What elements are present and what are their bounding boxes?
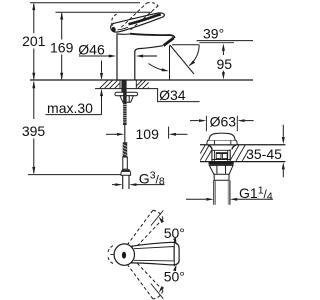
dimension max.30 lower arrow — [100, 89, 103, 96]
thin pull rod — [124, 125, 126, 142]
lever front dark band — [129, 15, 161, 25]
lever back edge — [116, 13, 159, 23]
dimension 109 — [106, 133, 117, 135]
dimension 201 arrow down — [32, 73, 35, 80]
dimension 35-45 lower — [282, 162, 285, 169]
braided hose — [123, 142, 128, 157]
extension line 169 (to lever top) — [56, 11, 153, 13]
drain locknut — [209, 165, 233, 174]
dome right corner shadow — [232, 145, 236, 149]
countertop top line — [30, 79, 253, 81]
dimension 169 line — [61, 13, 63, 79]
drain countertop bottom line — [200, 161, 285, 163]
dimension 201 arrow up — [32, 3, 35, 10]
svg-text:max.30: max.30 — [47, 100, 93, 116]
dimension 395 arrow up — [32, 81, 35, 88]
drain countertop top line — [200, 144, 285, 146]
dimension 395 line — [33, 82, 35, 173]
body top line — [117, 33, 134, 36]
hose nut dark band — [122, 170, 130, 172]
threaded rod thread lines — [123, 104, 127, 122]
threaded rod (continuous through washer and nut) — [123, 92, 127, 125]
svg-text:Ø63: Ø63 — [210, 113, 237, 129]
dashed raised lever tip cap — [147, 3, 159, 6]
angle arc arrowhead — [189, 60, 195, 66]
drain body inner verticals — [214, 150, 227, 161]
dimension O63 — [190, 120, 199, 122]
top view: lever body — [131, 242, 180, 265]
dimension 169 arrow down — [60, 73, 63, 80]
extension line hose end (395 bottom) — [28, 174, 121, 176]
hose sleeve — [123, 157, 128, 169]
seal washer dark bar — [208, 162, 233, 165]
faucet body right edge — [134, 52, 136, 81]
connection pipe G3/8 — [123, 175, 129, 189]
top view: knob dashed arcs — [108, 246, 113, 253]
drain dome arc — [209, 133, 235, 140]
vertical reference from spout outlet — [169, 46, 171, 80]
39 deg underline — [197, 40, 254, 42]
dimension O46 leader left — [79, 55, 109, 57]
braid texture — [123, 144, 128, 155]
dome left corner shadow — [208, 145, 212, 149]
drain body top line — [212, 149, 230, 151]
extension line top (201 to raised lever top) — [30, 2, 140, 4]
svg-text:50°: 50° — [164, 225, 185, 241]
water stream line — [170, 45, 194, 74]
counter hatch left of shank — [100, 80, 120, 88]
slots dark top — [216, 152, 227, 154]
extension tick at spout reach — [168, 127, 170, 139]
top view: arrowhead at lever tip upper — [173, 238, 176, 245]
dimension G3/8 arrows — [112, 184, 115, 186]
drain body edges — [212, 149, 230, 161]
spout underside — [139, 46, 163, 49]
top view: dashed lever rotated up 50 — [125, 209, 164, 252]
svg-text:50°: 50° — [164, 268, 185, 284]
small arc arrowhead — [162, 68, 169, 71]
drain counter hatch left — [200, 145, 212, 161]
countertop bottom line with step to O34 label — [95, 89, 200, 102]
svg-text:109: 109 — [136, 126, 160, 142]
drain body slots — [216, 153, 221, 159]
svg-text:Ø46: Ø46 — [78, 42, 105, 58]
aerator dark band — [164, 38, 174, 46]
top view: arrowhead at lever tip lower — [173, 264, 176, 271]
spout top edge — [130, 34, 175, 38]
lever bottom edge — [118, 18, 161, 32]
top view: lever inner outline — [134, 247, 174, 261]
lever inner line near knob — [118, 27, 129, 30]
svg-text:395: 395 — [22, 123, 46, 139]
lever knob dark spot — [111, 26, 116, 32]
top view: upper arrowhead at extension — [159, 217, 164, 224]
lever tip end cap — [159, 13, 164, 18]
top view: tip centerline — [173, 241, 175, 266]
drain counter hatch right — [231, 145, 248, 161]
svg-text:35-45: 35-45 — [246, 146, 282, 162]
top view: upper extension line — [151, 210, 163, 225]
dimension max.30 underline — [46, 114, 102, 116]
horseshoe washer — [115, 92, 138, 96]
dashed raised lever knob arc — [112, 14, 117, 26]
dimension G1 1/4 arrows — [186, 198, 206, 200]
drain body bottom line — [212, 159, 230, 161]
dimension 201 line — [33, 4, 35, 80]
mounting hole edges — [120, 80, 136, 89]
dashed raised lever line 2 — [131, 6, 159, 30]
dimension 169 arrow up — [60, 12, 63, 19]
dashed raised lever line 1 — [121, 3, 146, 27]
top view: lower arrowhead at extension — [159, 286, 164, 293]
dimension 395 arrow down — [32, 167, 35, 174]
dimension max.30 upper arrow — [101, 61, 103, 73]
faucet shoulder curve — [135, 49, 139, 52]
svg-text:201: 201 — [22, 33, 46, 49]
hose nut G3/8 — [121, 169, 131, 175]
top view: junction dots — [131, 246, 133, 248]
top view: horizontal centerline — [149, 254, 180, 256]
lever handle white fill — [111, 13, 165, 32]
top view: pivot knob — [114, 244, 134, 265]
lever knob — [111, 23, 119, 32]
top view: dashed lever rotated down 50 — [125, 257, 164, 300]
tailpipe inner lines — [216, 180, 229, 204]
small arc toward vertical line — [149, 64, 163, 71]
top view: knob indicator dark oval — [122, 252, 126, 259]
39 deg second reference line — [199, 42, 234, 44]
dimension 95 arrow down — [222, 72, 225, 79]
drain tailpipe — [214, 180, 230, 204]
39 deg horizontal arm from spout vertex — [172, 44, 199, 46]
top view: lower extension line — [151, 284, 163, 299]
svg-text:G11/4: G11/4 — [239, 184, 273, 202]
svg-text:Ø34: Ø34 — [159, 87, 186, 103]
svg-text:39°: 39° — [203, 25, 224, 41]
dimension 35-45 upper — [282, 125, 284, 137]
svg-text:95: 95 — [217, 56, 233, 72]
svg-text:169: 169 — [50, 39, 74, 55]
threaded shank dark — [121, 80, 126, 92]
drain collar — [214, 174, 229, 180]
O63 extension lines — [206, 116, 237, 131]
dimension 95 line — [222, 50, 224, 72]
angle arc 39 deg — [189, 45, 199, 66]
faucet body left edge — [116, 34, 118, 81]
top view: centerline left tick — [110, 254, 114, 256]
dimension O46 arrow right — [136, 55, 143, 58]
counter hatch right of shank — [136, 80, 148, 88]
dome rim inner verticals — [214, 140, 230, 145]
drain dome cap rim — [207, 140, 238, 145]
dimension 95 arrow up — [222, 43, 225, 50]
mounting nut — [120, 96, 133, 103]
